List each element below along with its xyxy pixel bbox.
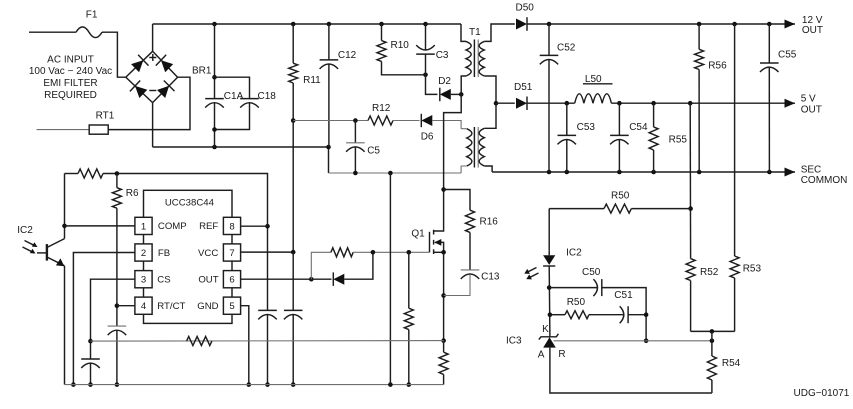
wire secondary top lead to D50 — [484, 24, 515, 41]
wire REF cap bottom — [267, 315, 269, 385]
diode IC2 LED — [543, 255, 555, 265]
wire secondary bottom lead to center tap — [484, 76, 496, 128]
svg-text:D2: D2 — [438, 76, 451, 87]
svg-text:AC INPUT: AC INPUT — [47, 54, 94, 65]
wire R11 to VCC node — [292, 83, 294, 252]
wire R12 to D6 — [393, 120, 420, 122]
svg-text:COMP: COMP — [158, 221, 187, 232]
bridge plus sign — [149, 54, 156, 61]
svg-text:2: 2 — [141, 248, 146, 259]
svg-text:COMMON: COMMON — [801, 175, 848, 186]
resistor COMP pullup — [78, 169, 103, 178]
wire opto collector rail — [64, 174, 66, 239]
node C5 bottom — [353, 171, 358, 176]
svg-text:Q1: Q1 — [411, 229, 425, 240]
wire C1A bottom lead — [214, 103, 216, 147]
transistor IC2 opto collector — [47, 239, 65, 248]
node C5 top — [353, 118, 358, 123]
node aux drop ground — [388, 382, 393, 387]
svg-text:D51: D51 — [514, 82, 533, 93]
capacitor C55 — [760, 62, 779, 64]
arrow 5V OUT — [785, 99, 796, 108]
node C51 right — [644, 312, 649, 317]
node SEC R55 — [651, 170, 656, 175]
wire VCC cap top — [292, 252, 294, 310]
wire C52 top lead — [548, 24, 550, 55]
node 12V C55 — [767, 22, 772, 27]
node top rail C1A — [212, 22, 217, 27]
svg-text:C13: C13 — [481, 272, 500, 283]
wire C55 top lead — [768, 24, 770, 63]
wire aux top lead — [461, 128, 467, 130]
wire primary ground rail — [65, 384, 444, 386]
transformer T1 aux winding — [467, 129, 472, 166]
resistor R53 — [730, 256, 739, 278]
transformer T1 secondary lower winding — [479, 128, 484, 166]
wire gate pulldown top — [408, 252, 410, 308]
op-amp U1 UCC38C44 body — [144, 190, 233, 323]
node top rail C3 — [423, 22, 428, 27]
transistor Q1 gate bar — [429, 232, 431, 253]
svg-text:C53: C53 — [577, 122, 596, 133]
node REF cap ground — [265, 382, 270, 387]
bridge diode top-left — [131, 60, 143, 72]
pin 2 box — [135, 244, 152, 261]
transistor Q1 source lead — [434, 251, 444, 253]
wire gate pulldown bottom — [408, 330, 410, 385]
svg-text:GND: GND — [197, 301, 218, 312]
wire C12 top lead — [328, 24, 330, 60]
diode D50 — [516, 19, 527, 30]
capacitor C1A — [205, 98, 224, 100]
wire RT1 to bridge AC2 — [108, 77, 190, 129]
wire CS cap bottom — [90, 363, 92, 384]
diode D2 — [440, 89, 451, 100]
wire lower secondary bottom lead — [484, 166, 492, 172]
node gate net left — [309, 277, 314, 282]
svg-text:K: K — [542, 324, 549, 335]
svg-text:IC2: IC2 — [17, 225, 33, 236]
svg-text:R54: R54 — [722, 358, 741, 369]
wire top rail to primary top — [461, 24, 466, 41]
node Q1 source — [441, 250, 446, 255]
wire TL431 R line — [554, 340, 712, 342]
wire pin1 lead — [65, 225, 135, 227]
svg-text:C55: C55 — [778, 49, 797, 60]
node top rail C12 — [327, 22, 332, 27]
wire C1A-C18 top link — [215, 77, 250, 98]
resistor R16 — [466, 210, 475, 232]
node top rail R11 — [291, 22, 296, 27]
wire R54 bottom — [711, 380, 713, 393]
wire 5V rail — [527, 102, 575, 104]
wire pin8 lead — [241, 225, 268, 227]
wire pin6 OUT lead — [241, 278, 312, 280]
wire R11 node to C5/R12 — [293, 120, 368, 122]
wire top DC rail — [153, 23, 461, 25]
fuse F1 symbol — [76, 27, 102, 38]
wire COMP row to REF drop — [103, 174, 268, 311]
opto IC2 light arrows — [23, 241, 37, 253]
wire AC line input to fuse F1 — [29, 31, 76, 33]
node gate pulldown tap — [407, 250, 412, 255]
svg-text:VCC: VCC — [198, 248, 218, 259]
wire SEC COMMON rail — [492, 171, 795, 173]
svg-text:C18: C18 — [258, 91, 277, 102]
wire gate res branch — [311, 252, 331, 279]
pin 8 box — [223, 217, 240, 234]
wire R16 to C13 — [469, 232, 471, 270]
transformer T1 primary winding — [466, 41, 471, 76]
transistor IC3 TL431 cathode bar — [539, 334, 559, 340]
wire C54 top lead — [618, 103, 620, 135]
wire aux drop vertical — [389, 173, 391, 385]
node R row C network — [644, 339, 649, 344]
wire K row left — [550, 314, 565, 316]
svg-text:REQUIRED: REQUIRED — [44, 90, 97, 101]
wire sense res to ground rail — [443, 374, 445, 384]
wire COMP feedback row left — [65, 173, 79, 175]
wire D6 anode to aux winding top — [432, 121, 461, 129]
wire bridge + to top rail — [152, 24, 154, 51]
node REF junction — [265, 224, 270, 229]
svg-text:BR1: BR1 — [192, 65, 212, 76]
node R line R54 — [710, 339, 715, 344]
resistor CS row filter — [187, 337, 212, 346]
wire R56 top lead — [698, 24, 700, 49]
transistor IC2 opto base stub — [37, 252, 47, 254]
wire C3 top lead — [425, 24, 427, 50]
wire aux bottom lead — [461, 166, 467, 173]
wire AC line 2 to RT1 — [37, 129, 90, 131]
svg-text:UCC38C44: UCC38C44 — [165, 198, 215, 209]
svg-text:4: 4 — [141, 301, 147, 312]
wire R52 bottom — [690, 281, 692, 332]
node C18 bottom link — [212, 127, 217, 132]
wire opto emitter to ground rail — [64, 266, 66, 385]
wire R55 bottom lead — [653, 150, 655, 172]
wire C52 bottom lead — [548, 60, 550, 172]
svg-text:RT1: RT1 — [96, 110, 115, 121]
svg-text:IC2: IC2 — [566, 247, 582, 258]
wire R52 top lead — [690, 258, 692, 260]
wire TL431 anode down — [550, 348, 712, 393]
capacitor CS filter — [81, 358, 100, 360]
bridge rectifier BR1 outline — [126, 51, 178, 102]
svg-text:R10: R10 — [391, 40, 410, 51]
svg-text:C12: C12 — [338, 50, 357, 61]
resistor R6 lead — [116, 174, 118, 188]
wire R50 lower to C51 — [589, 314, 624, 316]
wire bottom DC rail — [153, 147, 329, 173]
node R6 top — [115, 171, 120, 176]
svg-text:UDG−01071: UDG−01071 — [794, 388, 850, 399]
wire CT bottom lead — [116, 331, 118, 385]
wire sense res top — [443, 341, 445, 353]
node CS row tap — [88, 339, 93, 344]
capacitor C12 — [320, 59, 339, 61]
wire C5 bottom lead — [354, 147, 356, 173]
svg-text:R6: R6 — [126, 188, 139, 199]
resistor R54 — [707, 356, 716, 380]
wire pin3 CS — [91, 279, 135, 359]
wire C50 row left — [549, 287, 597, 289]
node K row left — [548, 312, 553, 317]
node 12V R53 — [732, 22, 737, 27]
wire pin5 GND to ground rail — [241, 306, 249, 385]
node divider center — [710, 329, 715, 334]
capacitor C52 — [540, 54, 559, 56]
svg-text:3: 3 — [141, 275, 146, 286]
transistor IC2 opto emitter — [47, 257, 65, 266]
capacitor C5 — [346, 142, 365, 144]
node SEC R56 — [697, 170, 702, 175]
node center tap — [494, 101, 499, 106]
node Q1 drain — [441, 187, 446, 192]
svg-text:FB: FB — [158, 248, 170, 259]
node bottom rail C12 corner — [326, 145, 331, 150]
svg-text:C52: C52 — [557, 43, 576, 54]
resistor R11 — [289, 63, 298, 83]
svg-text:EMI FILTER: EMI FILTER — [43, 78, 97, 89]
capacitor C5 top lead — [354, 121, 356, 143]
wire pin7 VCC lead — [241, 251, 294, 253]
arrow SEC COMMON — [785, 168, 796, 177]
bridge diode top-right — [161, 60, 173, 72]
wire pin2 to ground — [73, 253, 134, 385]
svg-text:RT/CT: RT/CT — [157, 301, 185, 312]
resistor R6 — [112, 188, 121, 209]
capacitor VCC bypass — [284, 309, 303, 311]
svg-text:OUT: OUT — [198, 275, 218, 286]
resistor R55 — [649, 127, 658, 150]
wire 12V rail — [527, 23, 795, 25]
wire R11 top lead — [292, 24, 294, 63]
node pin1 junction — [62, 224, 67, 229]
node bottom rail C1A — [212, 145, 217, 150]
wire R6 to pin4 — [116, 208, 118, 326]
transistor Q1 channel — [433, 230, 435, 254]
transistor IC3 TL431 triangle — [543, 337, 556, 347]
node top rail R10 — [379, 22, 384, 27]
transistor Q1 body arrow — [435, 242, 444, 252]
svg-text:5 V: 5 V — [801, 94, 816, 105]
node CS row right — [441, 338, 446, 343]
svg-text:R50: R50 — [567, 297, 586, 308]
node D2 primary junction — [459, 92, 464, 97]
wire gate diode to corner — [344, 252, 373, 279]
svg-text:1: 1 — [141, 221, 146, 232]
diode D6 — [421, 115, 432, 126]
svg-text:CS: CS — [157, 275, 170, 286]
svg-text:REF: REF — [199, 221, 218, 232]
svg-text:100 Vac − 240 Vac: 100 Vac − 240 Vac — [29, 66, 112, 77]
capacitor C54 — [610, 134, 629, 136]
svg-text:T1: T1 — [469, 27, 481, 38]
arrow 12V OUT — [785, 20, 796, 29]
svg-text:R12: R12 — [372, 103, 391, 114]
wire 5V sense drop — [689, 103, 691, 258]
wire C55 bottom lead — [768, 67, 770, 172]
node R11 bottom row — [291, 118, 296, 123]
node VCC junction — [291, 250, 296, 255]
svg-text:5: 5 — [229, 301, 234, 312]
wire primary bottom to clamp/drain — [444, 94, 462, 189]
wire R50 row right — [631, 208, 690, 210]
wire R53 drop — [734, 24, 736, 256]
svg-text:R52: R52 — [700, 267, 719, 278]
node gate row junction — [371, 250, 376, 255]
wire Q1 source down — [443, 252, 445, 340]
thermistor RT1 box — [89, 125, 108, 134]
svg-text:F1: F1 — [86, 10, 98, 21]
bridge diode bottom-right — [157, 86, 169, 98]
wire CS row — [91, 340, 444, 343]
node 12V R56 — [697, 22, 702, 27]
svg-text:R16: R16 — [480, 217, 499, 228]
transistor Q1 drain lead — [434, 190, 444, 232]
wire D2 anode to primary bottom — [451, 93, 461, 95]
transformer T1 core upper — [473, 40, 475, 78]
node pin2 ground — [71, 382, 76, 387]
wire C13 return — [444, 274, 470, 295]
node SEC C55 — [767, 170, 772, 175]
wire C3 bottom lead to D2 — [426, 54, 438, 94]
svg-text:R56: R56 — [708, 60, 727, 71]
node pin5 ground — [247, 382, 252, 387]
node 12V C52 — [547, 22, 552, 27]
capacitor C51 — [620, 306, 624, 323]
capacitor C3 — [416, 53, 435, 55]
wire VCC cap bottom — [292, 315, 294, 385]
resistor R52 — [686, 259, 695, 281]
transformer T1 core lower — [473, 127, 475, 168]
wire primary bottom lead — [461, 76, 466, 94]
wire divider stub — [711, 331, 713, 356]
pin 6 box — [223, 271, 240, 288]
node R50 top right — [688, 206, 693, 211]
node 5V R55 — [651, 101, 656, 106]
wire divider row — [691, 330, 735, 332]
wire center tap to D51 — [496, 102, 515, 104]
wire R10 bottom to C3 — [382, 61, 426, 74]
wire R53 bottom — [734, 278, 736, 331]
bridge diode bottom-left — [135, 86, 147, 98]
capacitor C53 — [558, 134, 577, 136]
node 5V sense — [688, 101, 693, 106]
node aux return drop — [388, 171, 393, 176]
svg-text:C1A: C1A — [224, 91, 244, 102]
wire pin4 lead — [117, 305, 135, 307]
bridge minus sign — [149, 90, 156, 92]
node C50 row left — [547, 285, 552, 290]
wire 5V rail after L50 — [611, 102, 795, 104]
resistor R56 — [695, 49, 704, 69]
pin 1 box — [135, 217, 152, 234]
transistor IC2 opto bar — [46, 244, 48, 261]
node pin4 junction — [115, 303, 120, 308]
capacitor C18 — [240, 98, 259, 100]
diode gate speedup — [333, 274, 344, 285]
wire C54 bottom lead — [618, 140, 620, 172]
svg-text:C54: C54 — [629, 122, 648, 133]
wire R50 row — [549, 208, 604, 210]
node CT ground — [115, 382, 120, 387]
svg-text:OUT: OUT — [801, 105, 822, 116]
node R10-C3 junction — [423, 73, 428, 78]
wire gate diode row — [311, 278, 331, 280]
node snubber return — [441, 293, 446, 298]
resistor R12 — [368, 116, 393, 125]
svg-text:C51: C51 — [614, 290, 633, 301]
wire R16 top — [444, 190, 470, 211]
pin 4 box — [135, 297, 152, 314]
node C1A top branch — [212, 75, 217, 80]
svg-text:A: A — [538, 350, 545, 361]
capacitor CT — [108, 325, 127, 327]
svg-text:C3: C3 — [436, 50, 449, 61]
svg-text:R50: R50 — [611, 191, 630, 202]
resistor gate pulldown — [404, 308, 413, 329]
node SEC C54 — [617, 170, 622, 175]
node 5V C53 — [565, 101, 570, 106]
resistor gate — [331, 248, 353, 257]
node SEC C53 — [565, 170, 570, 175]
inductor L50 — [575, 94, 612, 103]
wire LED to K node — [548, 266, 551, 337]
wire C51 to corner — [628, 314, 646, 316]
wire R55 top lead — [653, 103, 655, 127]
resistor R10 — [377, 41, 386, 62]
wire fuse to bridge AC1 — [102, 32, 126, 77]
svg-text:8: 8 — [229, 221, 234, 232]
capacitor C50 — [593, 279, 597, 296]
wire C12 bottom lead — [328, 64, 330, 147]
pin 3 box — [135, 271, 152, 288]
wire R10 top lead — [381, 24, 383, 41]
resistor R50 lower — [565, 311, 589, 319]
svg-text:R53: R53 — [743, 264, 762, 275]
resistor R50 upper — [604, 204, 631, 213]
svg-text:R11: R11 — [303, 75, 321, 86]
wire C53 top lead — [566, 103, 568, 135]
resistor current sense — [439, 352, 448, 374]
wire C50 row right — [602, 288, 646, 341]
capacitor C13 — [461, 269, 480, 271]
wire aux return line — [329, 172, 462, 174]
transformer T1 secondary upper winding — [479, 41, 484, 76]
svg-text:R55: R55 — [669, 134, 688, 145]
svg-text:D50: D50 — [516, 3, 535, 14]
diode D51 — [516, 98, 527, 109]
node VCC cap ground — [291, 382, 296, 387]
pin 7 box — [223, 244, 240, 261]
svg-text:7: 7 — [229, 248, 234, 259]
wire bridge - down to bottom rail — [152, 103, 154, 147]
svg-text:C5: C5 — [367, 146, 380, 157]
wire C18 bottom lead — [215, 103, 250, 130]
wire R56 bottom lead — [698, 70, 700, 173]
node gate pulldown ground — [407, 382, 412, 387]
wire C1A top lead — [214, 24, 216, 99]
wire R50 left corner to LED — [548, 209, 550, 251]
svg-text:R: R — [558, 349, 565, 360]
wire C53 bottom lead — [566, 140, 568, 172]
svg-text:OUT: OUT — [802, 25, 823, 36]
svg-text:IC3: IC3 — [506, 336, 522, 347]
node CS cap ground — [88, 382, 93, 387]
wire gate row to Q1 — [353, 251, 429, 253]
